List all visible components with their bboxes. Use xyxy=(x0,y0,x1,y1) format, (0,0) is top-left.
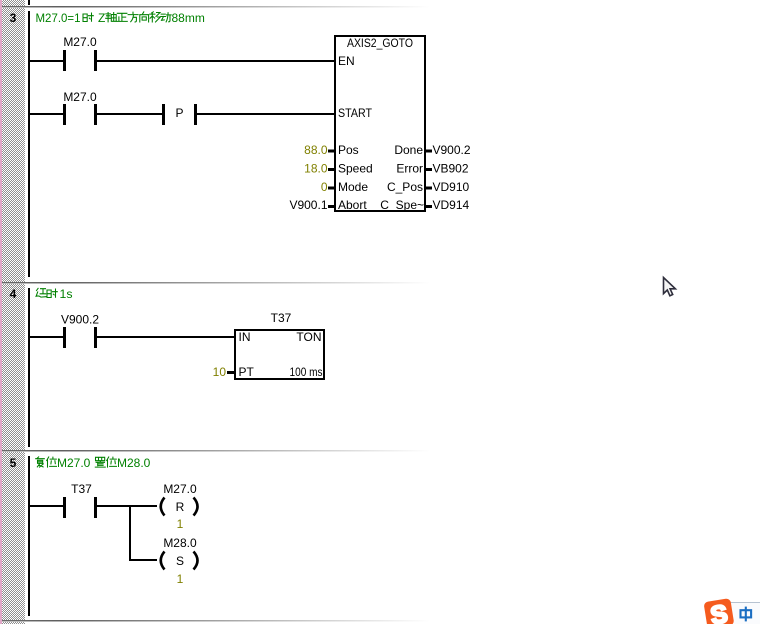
svg-text:V900.2: V900.2 xyxy=(433,143,471,157)
contact M27.0 rung 2 xyxy=(63,90,97,125)
svg-text:100 ms: 100 ms xyxy=(290,365,323,379)
svg-text:Z: Z xyxy=(98,11,105,25)
wire rail to contact V900.2 xyxy=(30,336,63,338)
svg-text:START: START xyxy=(338,106,373,120)
tick Error output xyxy=(425,168,432,171)
pin IN xyxy=(239,330,251,344)
tick Speed input xyxy=(328,168,335,171)
network number margin (dithered) xyxy=(2,0,25,624)
network number 5 xyxy=(10,456,17,470)
separator line between network 3 and 4 xyxy=(2,282,430,284)
svg-text:88mm: 88mm xyxy=(172,11,205,25)
contact P (positive edge) xyxy=(162,104,197,125)
pin Done xyxy=(394,143,423,157)
wire to contact P xyxy=(97,113,162,115)
comment network 3: M27.0=1 shi Z zhou zheng fang xiang yi dong 88mm xyxy=(36,11,205,25)
wire rail to contact M27.0 rung 1 xyxy=(30,60,63,62)
operand V900.2 for Done xyxy=(433,143,471,157)
svg-text:M27.0: M27.0 xyxy=(63,35,97,49)
svg-text:VD910: VD910 xyxy=(433,180,470,194)
tick C_Spe~ output xyxy=(425,205,432,208)
svg-text:5: 5 xyxy=(10,456,17,470)
svg-text:Speed: Speed xyxy=(338,162,373,176)
value 1 for S coil xyxy=(177,572,184,586)
pin Pos xyxy=(338,143,359,157)
svg-text:Mode: Mode xyxy=(338,180,368,194)
separator line bottom xyxy=(2,620,430,622)
separator line between network 4 and 5 xyxy=(2,450,430,452)
comment network 5: fu wei M27.0 zhi wei M28.0 xyxy=(36,456,151,470)
operand VD910 for C_Pos xyxy=(433,180,470,194)
svg-text:R: R xyxy=(176,500,185,514)
wire contact to timer IN xyxy=(97,336,235,338)
contact T37 xyxy=(63,482,97,518)
svg-text:1s: 1s xyxy=(60,287,73,301)
left power rail network 3 xyxy=(28,11,30,277)
svg-text:M27.0: M27.0 xyxy=(163,482,197,496)
value 18.0 for Speed xyxy=(304,162,328,176)
svg-text:M27.0=1: M27.0=1 xyxy=(36,11,81,25)
operand V900.1 for Abort xyxy=(289,198,327,212)
pin Error xyxy=(396,162,423,176)
svg-text:18.0: 18.0 xyxy=(304,162,328,176)
svg-text:V900.1: V900.1 xyxy=(289,198,327,212)
value 10 for PT xyxy=(213,365,227,379)
operand VD914 for C_Spe~ xyxy=(433,198,470,212)
pin C_Pos xyxy=(387,180,423,194)
network number 4 xyxy=(10,287,17,301)
svg-text:M27.0: M27.0 xyxy=(63,90,97,104)
tick Mode input xyxy=(328,187,335,190)
svg-text:4: 4 xyxy=(10,287,17,301)
function block AXIS2_GOTO xyxy=(335,36,425,211)
svg-text:AXIS2_GOTO: AXIS2_GOTO xyxy=(347,36,413,50)
svg-text:1: 1 xyxy=(177,517,184,531)
svg-text:1: 1 xyxy=(177,572,184,586)
coil M28.0 set (S) xyxy=(161,536,198,570)
svg-text:PT: PT xyxy=(239,365,255,379)
pin Mode xyxy=(338,180,368,194)
svg-text:88.0: 88.0 xyxy=(304,143,328,157)
value 1 for R coil xyxy=(177,517,184,531)
tick C_Pos output xyxy=(425,187,432,190)
pin C_Spe~ xyxy=(380,198,424,212)
svg-text:M28.0: M28.0 xyxy=(163,536,197,550)
timer block T37 TON xyxy=(235,311,324,379)
svg-text:3: 3 xyxy=(10,11,17,25)
svg-text:TON: TON xyxy=(296,330,321,344)
svg-text:Pos: Pos xyxy=(338,143,359,157)
svg-text:VD914: VD914 xyxy=(433,198,470,212)
separator line top xyxy=(2,6,430,8)
contact M27.0 rung 1 xyxy=(63,35,97,71)
svg-text:M28.0: M28.0 xyxy=(117,456,151,470)
branch junction vertical wire xyxy=(129,505,131,561)
svg-text:T37: T37 xyxy=(71,482,92,496)
svg-text:Abort: Abort xyxy=(338,198,367,212)
wire rail to contact T37 xyxy=(30,505,63,507)
wire contact to EN pin xyxy=(97,60,334,62)
wire contact to coil R xyxy=(97,505,157,507)
wire P contact to START pin xyxy=(197,113,334,115)
sogou 中 (Chinese mode) icon xyxy=(741,607,752,622)
pin EN xyxy=(338,54,355,68)
left power rail network 5 xyxy=(28,456,30,616)
wire rail to contact M27.0 rung 2 xyxy=(30,113,63,115)
wire stub network 2 rail xyxy=(28,0,30,5)
svg-text:EN: EN xyxy=(338,54,355,68)
left pink gutter xyxy=(0,0,2,624)
svg-text:10: 10 xyxy=(213,365,227,379)
svg-text:IN: IN xyxy=(239,330,251,344)
pin PT xyxy=(239,365,255,379)
tick Pos input xyxy=(328,150,335,153)
svg-text:Error: Error xyxy=(396,162,423,176)
pin Abort xyxy=(338,198,367,212)
branch wire to coil S xyxy=(131,559,157,561)
svg-text:0: 0 xyxy=(321,180,328,194)
sogou S logo xyxy=(703,598,734,624)
operand VB902 for Error xyxy=(433,162,469,176)
tick Done output xyxy=(425,150,432,153)
left power rail network 4 xyxy=(28,288,30,447)
svg-text:C_Spe~: C_Spe~ xyxy=(380,198,424,212)
comment network 4: yan shi 1s xyxy=(36,287,72,301)
svg-text:S: S xyxy=(176,554,184,568)
sogou IME toolbar panel xyxy=(727,602,760,624)
pin START xyxy=(338,106,373,120)
label 100 ms xyxy=(290,365,323,379)
svg-text:V900.2: V900.2 xyxy=(61,313,99,327)
coil M27.0 reset (R) xyxy=(161,482,198,516)
svg-text:VB902: VB902 xyxy=(433,162,469,176)
network number 3 xyxy=(10,11,17,25)
mouse cursor arrow xyxy=(664,278,676,296)
label TON xyxy=(296,330,321,344)
tick PT input xyxy=(227,371,235,374)
value 88.0 for Pos xyxy=(304,143,328,157)
value 0 for Mode xyxy=(321,180,328,194)
tick Abort input xyxy=(328,205,335,208)
svg-text:C_Pos: C_Pos xyxy=(387,180,423,194)
pin Speed xyxy=(338,162,373,176)
svg-text:P: P xyxy=(175,106,183,120)
svg-text:M27.0: M27.0 xyxy=(57,456,91,470)
svg-text:Done: Done xyxy=(394,143,423,157)
contact V900.2 xyxy=(61,313,99,349)
svg-text:T37: T37 xyxy=(271,311,292,325)
